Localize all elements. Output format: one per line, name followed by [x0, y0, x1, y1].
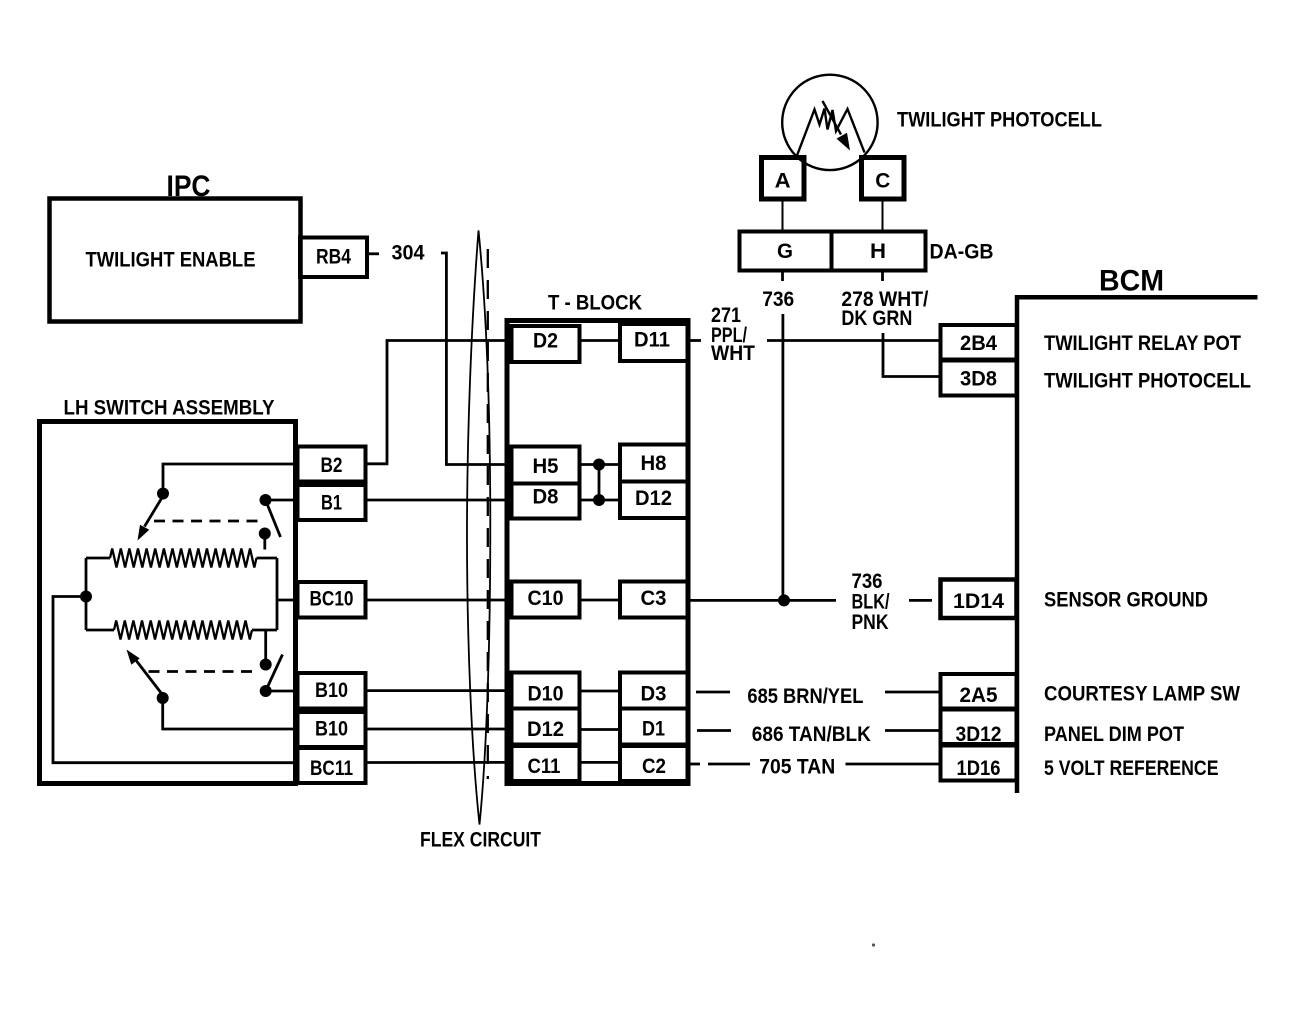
lower switch contact junction [260, 685, 272, 697]
dash before 1D14 [909, 599, 932, 602]
wire C10 to C3 [580, 599, 621, 602]
wire B1 to D8 [366, 499, 512, 502]
wire 271 to 2B4 [767, 339, 941, 342]
lower wiper arrow [135, 659, 163, 695]
lower coupling dashed link [149, 670, 256, 673]
svg-text:C2: C2 [642, 755, 666, 778]
connector RB4 [300, 238, 367, 278]
svg-text:2A5: 2A5 [960, 684, 998, 707]
wire left bracket [85, 558, 88, 630]
wire B10 to D12 [366, 728, 512, 731]
lower switch blade [267, 655, 283, 689]
wire 278 to 3D8 [883, 333, 941, 377]
svg-text:H8: H8 [641, 452, 667, 475]
pin D10 [512, 673, 580, 709]
pin D8 [512, 484, 580, 519]
lower switch upper contact [260, 659, 272, 671]
dash 686 [697, 729, 731, 732]
junction lower wiper [157, 692, 169, 704]
LH switch assembly box [40, 422, 296, 784]
flex circuit lens [467, 231, 490, 825]
wire D2 to D11 [580, 339, 621, 342]
svg-text:PANEL DIM POT: PANEL DIM POT [1044, 723, 1184, 746]
svg-text:D12: D12 [635, 487, 672, 510]
wire 705 to 1D16 [846, 763, 941, 766]
svg-text:2B4: 2B4 [960, 332, 997, 355]
svg-text:H: H [870, 240, 886, 263]
svg-text:PNK: PNK [852, 611, 889, 634]
svg-text:B10: B10 [315, 718, 348, 741]
junction left bracket [80, 591, 92, 603]
pin C2 [620, 746, 689, 781]
pin H8 [620, 445, 689, 482]
svg-text:TWILIGHT RELAY POT: TWILIGHT RELAY POT [1044, 332, 1241, 355]
terminal B10 upper [298, 673, 366, 709]
svg-text:B10: B10 [315, 679, 348, 702]
wire BC11 to C11 [366, 761, 512, 764]
terminal BC11 [298, 748, 366, 783]
pin D12 lower [512, 709, 580, 745]
wire bracket to BC10 [277, 599, 298, 602]
pin C10 [512, 582, 580, 618]
pin D11 [620, 324, 689, 361]
svg-text:TWILIGHT PHOTOCELL: TWILIGHT PHOTOCELL [1044, 370, 1251, 393]
terminal BC10 [298, 582, 366, 618]
svg-text:5 VOLT REFERENCE: 5 VOLT REFERENCE [1044, 757, 1219, 780]
svg-text:D1: D1 [642, 718, 665, 741]
wire B2 to D2 [366, 341, 512, 464]
svg-text:705 TAN: 705 TAN [759, 756, 835, 779]
wire D8 to D12 [580, 499, 621, 502]
svg-text:A: A [775, 170, 791, 193]
svg-text:D10: D10 [528, 683, 564, 706]
connector 3D12 [941, 710, 1017, 745]
BCM box edge top [1015, 295, 1258, 300]
connector 2A5 [941, 674, 1017, 709]
photocell arrow [823, 101, 842, 135]
wire C3 to junction [690, 599, 836, 602]
junction upper wiper [157, 488, 169, 500]
wire contact to resistor R1 [263, 534, 266, 550]
pin H5 [512, 447, 580, 484]
svg-text:C11: C11 [528, 755, 561, 778]
photocell circle [782, 75, 877, 170]
wire R2 right lead [252, 629, 277, 632]
wire B2 to upper wiper [163, 464, 298, 491]
wire R2 to lower switch contact [264, 630, 267, 661]
svg-text:H5: H5 [533, 455, 559, 478]
pin D1 [620, 709, 689, 745]
upper coupling dashed link [154, 520, 262, 523]
svg-text:3D8: 3D8 [960, 368, 997, 391]
flex circuit dashed line [487, 249, 489, 779]
svg-text:SENSOR GROUND: SENSOR GROUND [1044, 589, 1208, 612]
svg-text:D2: D2 [533, 330, 558, 353]
wire 686 to 3D12 [885, 729, 941, 732]
wire C2 stub [690, 763, 700, 766]
junction H5-H8 [593, 459, 605, 471]
svg-text:WHT: WHT [711, 342, 755, 365]
wire BC10 to C10 [366, 599, 512, 602]
IPC box [50, 199, 301, 322]
terminal B1 [298, 485, 366, 520]
connector 2B4 [941, 325, 1017, 360]
svg-text:TWILIGHT ENABLE: TWILIGHT ENABLE [86, 249, 256, 272]
svg-text:685 BRN/YEL: 685 BRN/YEL [747, 685, 863, 708]
resistor R1 upper [110, 549, 257, 568]
upper wiper arrow [145, 496, 164, 527]
wire H stub [881, 271, 884, 282]
terminal B2 [298, 447, 366, 482]
connector 1D16 [941, 746, 1017, 781]
pin C11 [512, 746, 580, 781]
terminal A [762, 158, 805, 200]
svg-text:RB4: RB4 [316, 246, 351, 269]
svg-text:BC11: BC11 [310, 757, 353, 780]
wire contact to B10 upper [266, 690, 298, 693]
connector 1D14 [941, 580, 1017, 619]
svg-text:1D16: 1D16 [957, 757, 1001, 780]
T-block box [507, 321, 688, 784]
svg-text:B2: B2 [321, 454, 343, 477]
wire D12 to D1 [580, 728, 621, 731]
svg-text:COURTESY LAMP SW: COURTESY LAMP SW [1044, 683, 1240, 706]
svg-text:FLEX CIRCUIT: FLEX CIRCUIT [420, 829, 541, 852]
svg-text:304: 304 [392, 242, 425, 265]
svg-text:D8: D8 [533, 486, 559, 509]
wire C11 to C2 [580, 761, 621, 764]
wire G stub [781, 271, 784, 282]
pin D12 upper [620, 482, 689, 519]
dash 705 [708, 763, 750, 766]
svg-text:D12: D12 [527, 718, 564, 741]
svg-text:T - BLOCK: T - BLOCK [548, 292, 642, 315]
wire junction link [598, 465, 601, 501]
svg-text:D3: D3 [641, 683, 667, 706]
svg-text:BC10: BC10 [310, 588, 354, 611]
svg-text:C10: C10 [528, 587, 564, 610]
junction 736 sensor ground [778, 594, 790, 606]
svg-text:686 TAN/BLK: 686 TAN/BLK [752, 723, 871, 746]
wire 685 to 2A5 [885, 691, 941, 694]
wire wiper to B10 lower [163, 698, 298, 729]
wire right bracket [276, 558, 279, 630]
connector G [740, 232, 832, 271]
junction upper switch contact [260, 494, 272, 506]
tick at D11 [690, 339, 701, 342]
svg-text:B1: B1 [321, 492, 342, 515]
wire R1 left lead [86, 557, 110, 560]
tick at RB4 [368, 252, 379, 255]
BCM box edge left [1015, 295, 1020, 793]
upper switch lower contact [259, 528, 271, 540]
speck [872, 943, 875, 946]
svg-text:3D12: 3D12 [956, 723, 1002, 746]
wire C to H [882, 200, 884, 232]
svg-text:D11: D11 [634, 329, 670, 352]
svg-text:DK GRN: DK GRN [841, 307, 912, 330]
wire B10 to D10 [366, 689, 512, 692]
wire A to G [782, 200, 784, 232]
wire bracket to BC11 [53, 597, 298, 763]
wire B1 to upper switch contact [266, 499, 298, 502]
svg-text:BCM: BCM [1099, 265, 1164, 298]
wire 736 vertical [782, 314, 785, 600]
pin C3 [620, 582, 689, 618]
wire R2 left lead [86, 629, 114, 632]
resistor R2 lower [114, 621, 252, 640]
svg-text:TWILIGHT PHOTOCELL: TWILIGHT PHOTOCELL [897, 109, 1102, 132]
terminal C [862, 158, 905, 200]
svg-text:DA-GB: DA-GB [930, 241, 994, 264]
wire D10 to D3 [580, 690, 621, 693]
wire H5 to H8 [580, 463, 621, 466]
svg-text:G: G [777, 240, 793, 263]
svg-text:LH SWITCH ASSEMBLY: LH SWITCH ASSEMBLY [64, 397, 275, 420]
connector 3D8 [941, 361, 1017, 396]
pin D3 [620, 673, 689, 709]
terminal B10 lower [298, 712, 366, 747]
photocell resistor element [797, 109, 865, 156]
upper switch blade [267, 503, 281, 538]
svg-text:C: C [875, 170, 890, 193]
dash 685 [696, 691, 730, 694]
wire 304 RB4 to H5 [441, 253, 512, 465]
svg-text:736: 736 [762, 288, 794, 311]
svg-text:C3: C3 [641, 587, 667, 610]
junction D8-D12 [593, 494, 605, 506]
pin D2 [512, 326, 580, 362]
connector H [832, 232, 926, 271]
svg-text:1D14: 1D14 [953, 590, 1004, 613]
wire R1 right lead [257, 557, 278, 560]
